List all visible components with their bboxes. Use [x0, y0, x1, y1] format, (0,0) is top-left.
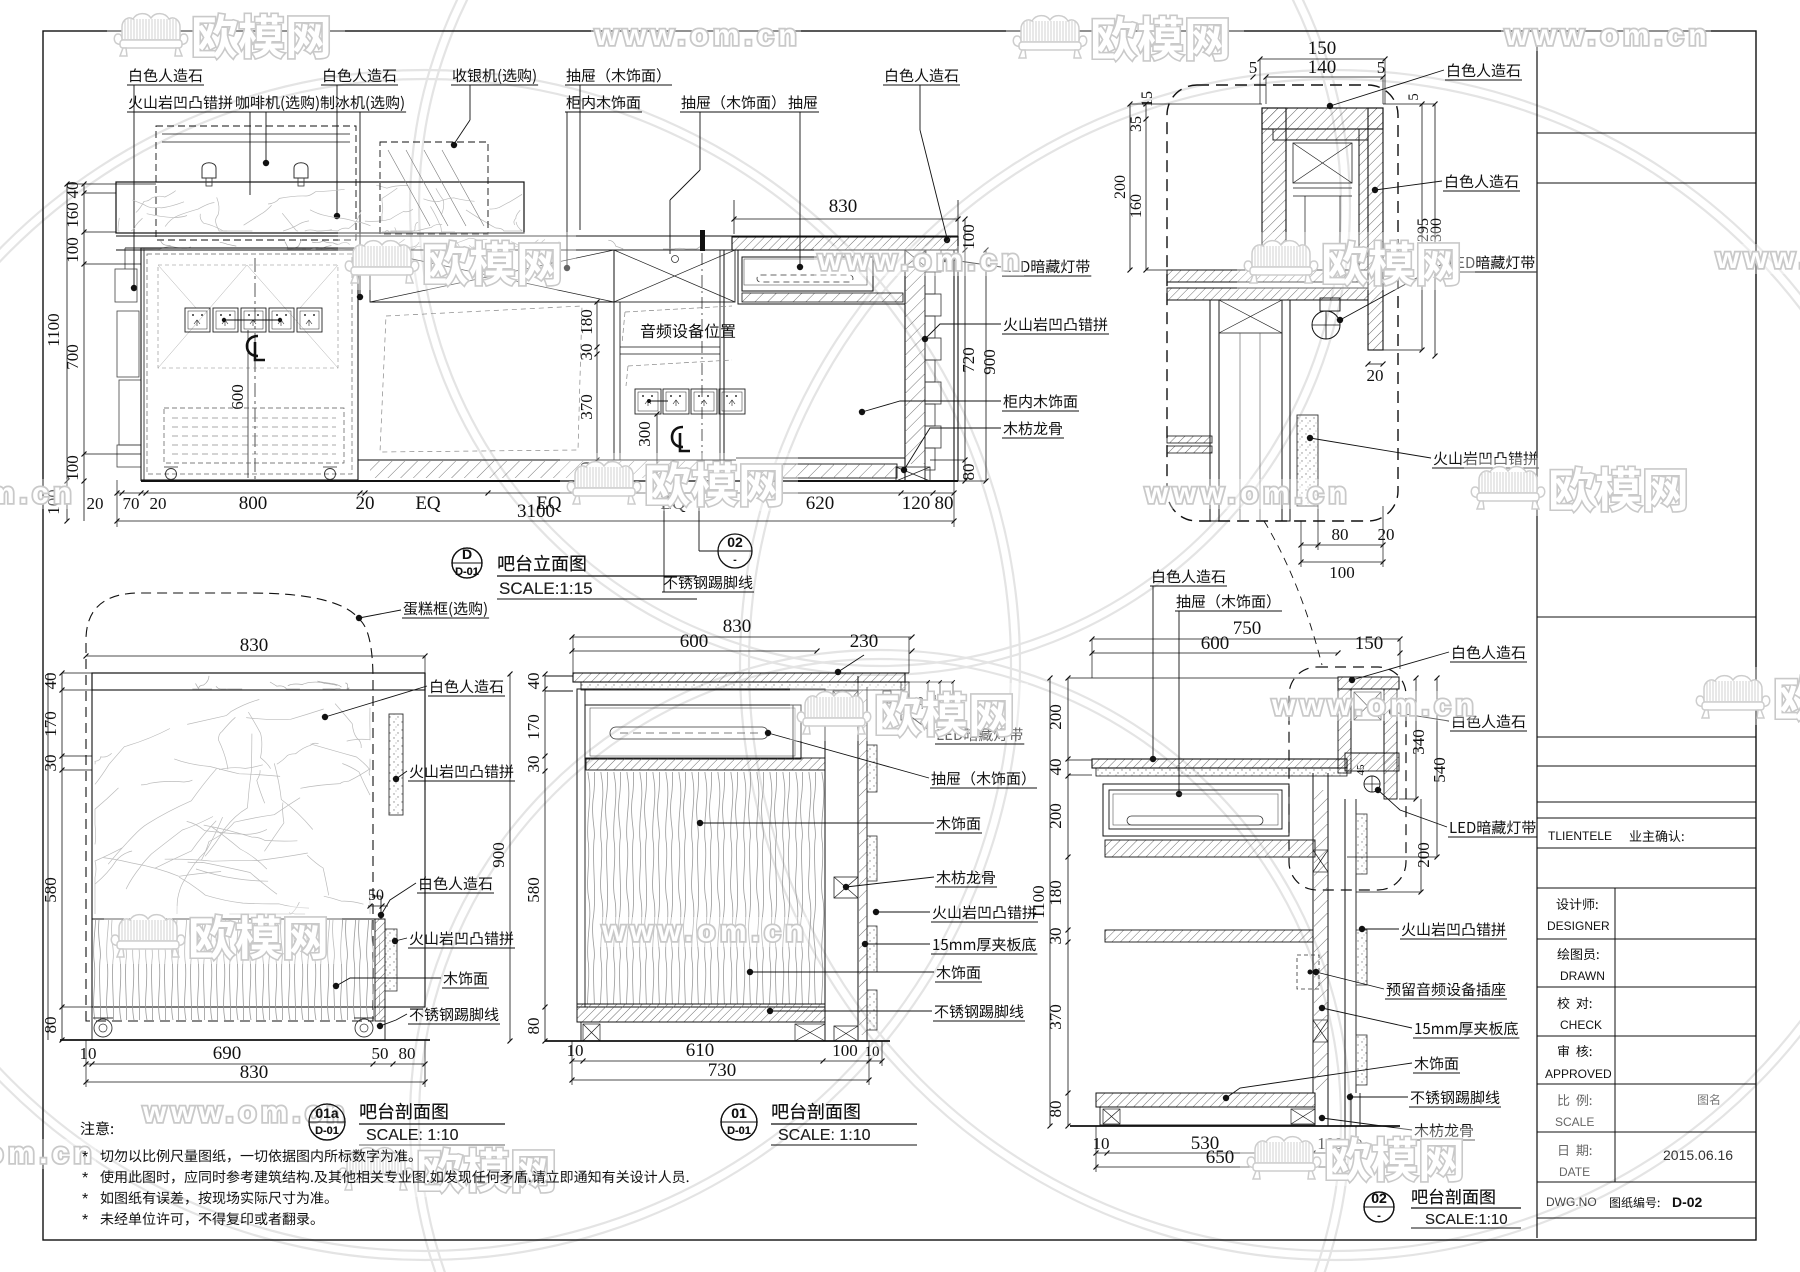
- svg-text:80: 80: [1046, 1101, 1065, 1118]
- svg-text:80: 80: [524, 1018, 543, 1035]
- svg-text:www.om.cn: www.om.cn: [817, 244, 1024, 277]
- svg-text:-: -: [1377, 1210, 1381, 1222]
- svg-text:50: 50: [368, 887, 384, 904]
- svg-text:5: 5: [1249, 58, 1258, 77]
- svg-text:SCALE: 1:10: SCALE: 1:10: [778, 1127, 871, 1144]
- svg-text:www.om.cn: www.om.cn: [1504, 19, 1711, 52]
- svg-text:40: 40: [1046, 759, 1065, 776]
- svg-text:30: 30: [41, 755, 60, 772]
- svg-text:600: 600: [228, 384, 247, 410]
- svg-text:580: 580: [41, 877, 60, 903]
- svg-text:620: 620: [806, 493, 835, 514]
- svg-text:3100: 3100: [517, 501, 555, 522]
- svg-text:830: 830: [723, 616, 752, 637]
- svg-text:10: 10: [80, 1044, 97, 1063]
- svg-text:70: 70: [123, 494, 140, 513]
- svg-text:www.om.cn: www.om.cn: [1715, 242, 1800, 275]
- svg-text:D-01: D-01: [455, 566, 479, 578]
- svg-text:690: 690: [213, 1043, 242, 1064]
- svg-text:900: 900: [489, 842, 508, 868]
- svg-text:20: 20: [1378, 525, 1395, 544]
- svg-text:20: 20: [1367, 366, 1384, 385]
- svg-text:*: *: [82, 1212, 88, 1229]
- svg-text:730: 730: [708, 1060, 737, 1081]
- svg-text:160: 160: [1128, 194, 1145, 218]
- svg-text:200: 200: [1046, 704, 1065, 730]
- svg-text:300: 300: [635, 421, 654, 447]
- svg-text:610: 610: [686, 1040, 715, 1061]
- svg-text:15: 15: [1139, 91, 1156, 107]
- svg-text:580: 580: [524, 877, 543, 903]
- svg-text:370: 370: [577, 394, 596, 420]
- svg-text:200: 200: [1046, 803, 1065, 829]
- svg-text:30: 30: [577, 344, 596, 361]
- svg-text:40: 40: [41, 673, 60, 690]
- svg-text:D-01: D-01: [727, 1125, 751, 1137]
- svg-text:160: 160: [63, 202, 82, 228]
- svg-text:D-02: D-02: [1672, 1194, 1703, 1210]
- svg-text:200: 200: [1112, 175, 1129, 199]
- svg-text:30: 30: [1046, 928, 1065, 945]
- svg-text:100: 100: [832, 1041, 858, 1060]
- svg-text:900: 900: [980, 349, 999, 375]
- svg-text:APPROVED: APPROVED: [1545, 1067, 1612, 1081]
- svg-text:150: 150: [1355, 633, 1384, 654]
- svg-text:40: 40: [524, 673, 543, 690]
- svg-text:540: 540: [1430, 757, 1449, 783]
- svg-text:80: 80: [399, 1044, 416, 1063]
- svg-text:600: 600: [1201, 633, 1230, 654]
- svg-text:50: 50: [372, 1044, 389, 1063]
- svg-text:100: 100: [1329, 563, 1355, 582]
- svg-text:DWG.NO: DWG.NO: [1546, 1195, 1597, 1209]
- svg-text:720: 720: [959, 347, 978, 373]
- svg-text:01: 01: [731, 1105, 747, 1121]
- svg-text:100: 100: [63, 237, 82, 263]
- svg-text:80: 80: [41, 1017, 60, 1034]
- svg-text:DESIGNER: DESIGNER: [1547, 919, 1610, 933]
- svg-text:www.om.cn: www.om.cn: [594, 19, 801, 52]
- svg-text:230: 230: [850, 631, 879, 652]
- svg-text:170: 170: [524, 714, 543, 740]
- svg-text:830: 830: [240, 1062, 269, 1083]
- svg-text:01a: 01a: [315, 1105, 339, 1121]
- svg-text:200: 200: [1414, 842, 1433, 868]
- svg-text:*: *: [82, 1191, 88, 1208]
- svg-text:180: 180: [577, 309, 596, 335]
- svg-text:830: 830: [240, 635, 269, 656]
- svg-text:80: 80: [1332, 525, 1349, 544]
- svg-text:170: 170: [41, 711, 60, 737]
- svg-text:SCALE:1:10: SCALE:1:10: [1425, 1211, 1508, 1228]
- svg-text:www.om.cn: www.om.cn: [1271, 689, 1478, 722]
- svg-text:*: *: [82, 1149, 88, 1166]
- svg-text:5: 5: [1377, 58, 1386, 77]
- svg-text:www.om.cn: www.om.cn: [0, 477, 76, 510]
- svg-text:35: 35: [1128, 116, 1145, 132]
- svg-text:180: 180: [1046, 880, 1065, 906]
- svg-text:CHECK: CHECK: [1560, 1018, 1602, 1032]
- svg-text:02: 02: [1371, 1190, 1387, 1206]
- svg-text:TLIENTELE: TLIENTELE: [1548, 829, 1612, 843]
- svg-text:SCALE:1:15: SCALE:1:15: [499, 579, 593, 598]
- svg-text:800: 800: [239, 493, 268, 514]
- svg-text:20: 20: [87, 494, 104, 513]
- svg-text:150: 150: [1308, 38, 1337, 59]
- svg-text:80: 80: [935, 493, 954, 514]
- svg-text:650: 650: [1206, 1147, 1235, 1168]
- svg-text:SCALE: 1:10: SCALE: 1:10: [366, 1127, 459, 1144]
- svg-text:5: 5: [1406, 93, 1422, 101]
- svg-text:www.om.cn: www.om.cn: [601, 915, 808, 948]
- svg-text:DATE: DATE: [1559, 1165, 1590, 1179]
- svg-text:80: 80: [959, 464, 978, 481]
- svg-text:45: 45: [1355, 764, 1367, 776]
- svg-text:EQ: EQ: [415, 493, 441, 514]
- svg-text:02: 02: [727, 534, 743, 550]
- svg-text:140: 140: [1308, 57, 1337, 78]
- svg-text:700: 700: [63, 344, 82, 370]
- svg-text:750: 750: [1233, 618, 1262, 639]
- svg-text:20: 20: [150, 494, 167, 513]
- svg-text:www.om.cn: www.om.cn: [1144, 477, 1351, 510]
- svg-text:120: 120: [902, 493, 931, 514]
- svg-text:340: 340: [1409, 729, 1428, 755]
- svg-text:D-01: D-01: [315, 1125, 339, 1137]
- svg-text:20: 20: [356, 493, 375, 514]
- svg-text:DRAWN: DRAWN: [1560, 969, 1605, 983]
- svg-text:10: 10: [865, 1044, 880, 1060]
- svg-text:1100: 1100: [1029, 885, 1048, 918]
- svg-text:830: 830: [829, 196, 858, 217]
- svg-text:1100: 1100: [44, 313, 63, 346]
- svg-text:*: *: [82, 1170, 88, 1187]
- svg-text:D: D: [462, 546, 472, 562]
- svg-text:SCALE: SCALE: [1555, 1115, 1594, 1129]
- svg-text:30: 30: [524, 756, 543, 773]
- svg-text:-: -: [733, 554, 737, 566]
- svg-text:10: 10: [1093, 1134, 1110, 1153]
- svg-text:10: 10: [567, 1041, 584, 1060]
- svg-text:600: 600: [680, 631, 709, 652]
- svg-text:370: 370: [1046, 1004, 1065, 1030]
- svg-text:2015.06.16: 2015.06.16: [1663, 1147, 1733, 1163]
